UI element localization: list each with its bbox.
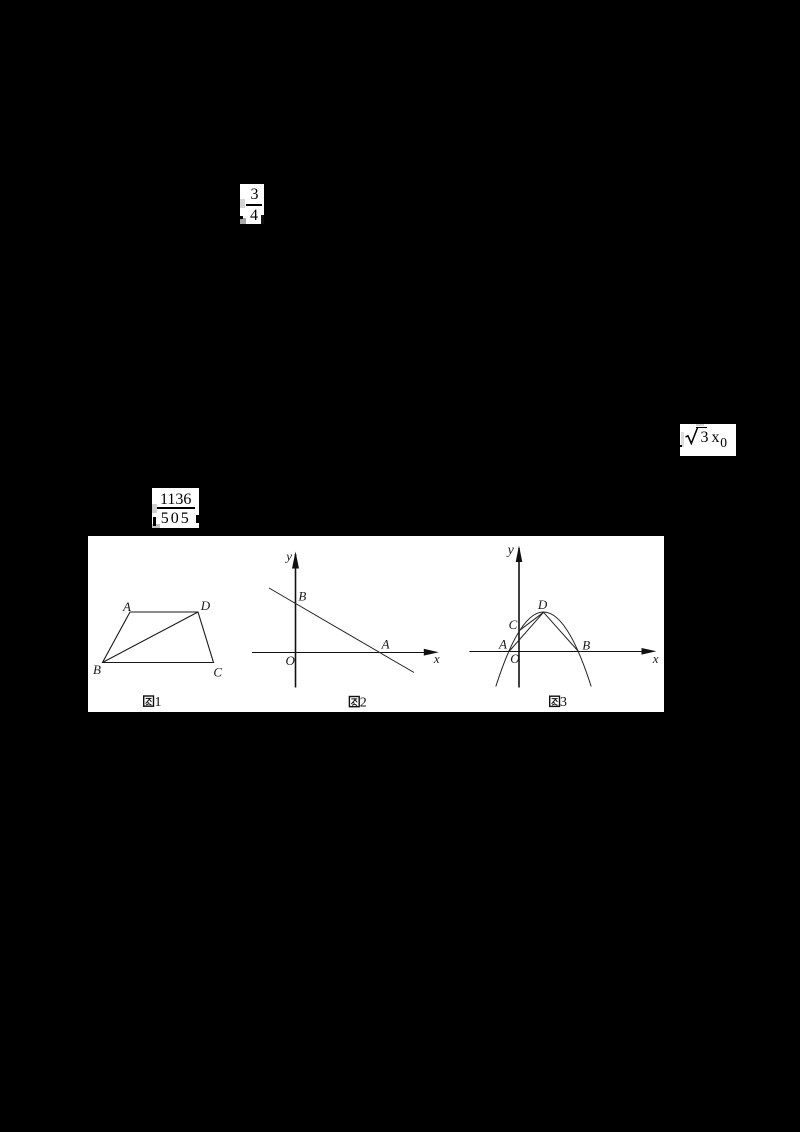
fig3 chord C to D xyxy=(519,612,544,631)
svg-text:x: x xyxy=(433,651,440,666)
fraction bar xyxy=(246,204,262,206)
fraction bar xyxy=(157,507,195,509)
black mark left xyxy=(153,517,156,526)
gray artifact left xyxy=(152,504,157,513)
caption 图2 glyph xyxy=(349,697,359,707)
x xyxy=(712,430,720,446)
black mark outside lower-left xyxy=(680,445,682,447)
svg-text:2: 2 xyxy=(360,695,367,710)
numerator 1136 xyxy=(160,491,191,509)
svg-text:O: O xyxy=(510,651,520,666)
svg-text:B: B xyxy=(582,638,590,653)
numerator 3 xyxy=(251,186,259,204)
svg-text:x: x xyxy=(652,651,659,666)
fig3 parabola through A C D B xyxy=(496,612,591,687)
black mark bottom-right xyxy=(261,215,264,224)
caption 图1 glyph xyxy=(144,696,154,706)
svg-text:y: y xyxy=(284,549,292,564)
svg-text:D: D xyxy=(537,597,548,612)
svg-text:B: B xyxy=(93,662,101,677)
fig3 x-axis xyxy=(470,651,649,653)
white figure panel with three diagrams xyxy=(88,536,664,712)
fig1 trapezoid ABCD xyxy=(103,612,214,663)
fig2 line through B and A xyxy=(269,588,414,673)
caption 图3 glyph xyxy=(550,696,560,706)
svg-text:D: D xyxy=(200,598,211,613)
radical vinculum xyxy=(696,427,707,429)
svg-text:y: y xyxy=(506,543,515,558)
fig3 chord D to B xyxy=(544,612,579,651)
gray artifact bottom-left xyxy=(240,218,246,224)
fig3 y-axis xyxy=(518,548,520,688)
sqrt(3) x0 cutout box xyxy=(680,424,736,456)
gray artifact top xyxy=(696,424,704,426)
radical sign xyxy=(685,427,699,447)
svg-text:C: C xyxy=(213,665,222,680)
denominator 4 xyxy=(250,207,258,225)
radicand 3 xyxy=(701,430,709,446)
fig1 diagonal BD xyxy=(103,612,199,663)
subscript 0 xyxy=(720,436,727,450)
svg-text:O: O xyxy=(286,653,296,668)
gray artifact bottom-left xyxy=(152,524,160,528)
fig3 chord A to D xyxy=(509,612,544,651)
black mark right xyxy=(196,515,199,523)
gray artifact left edge xyxy=(681,432,685,447)
fig2 y-axis xyxy=(295,554,297,688)
svg-text:C: C xyxy=(509,617,518,632)
gray artifact left xyxy=(240,199,245,208)
svg-text:B: B xyxy=(298,588,306,603)
svg-text:A: A xyxy=(381,637,390,652)
svg-text:1: 1 xyxy=(155,695,162,710)
svg-text:A: A xyxy=(498,637,507,652)
black notch bottom-left xyxy=(239,216,243,219)
fig2 x-axis xyxy=(252,652,430,654)
denominator 505 xyxy=(161,510,191,528)
fraction 3/4 cutout box xyxy=(240,184,264,224)
svg-text:A: A xyxy=(122,599,131,614)
fraction 1136/505 cutout box xyxy=(152,488,199,528)
svg-text:3: 3 xyxy=(560,695,567,710)
